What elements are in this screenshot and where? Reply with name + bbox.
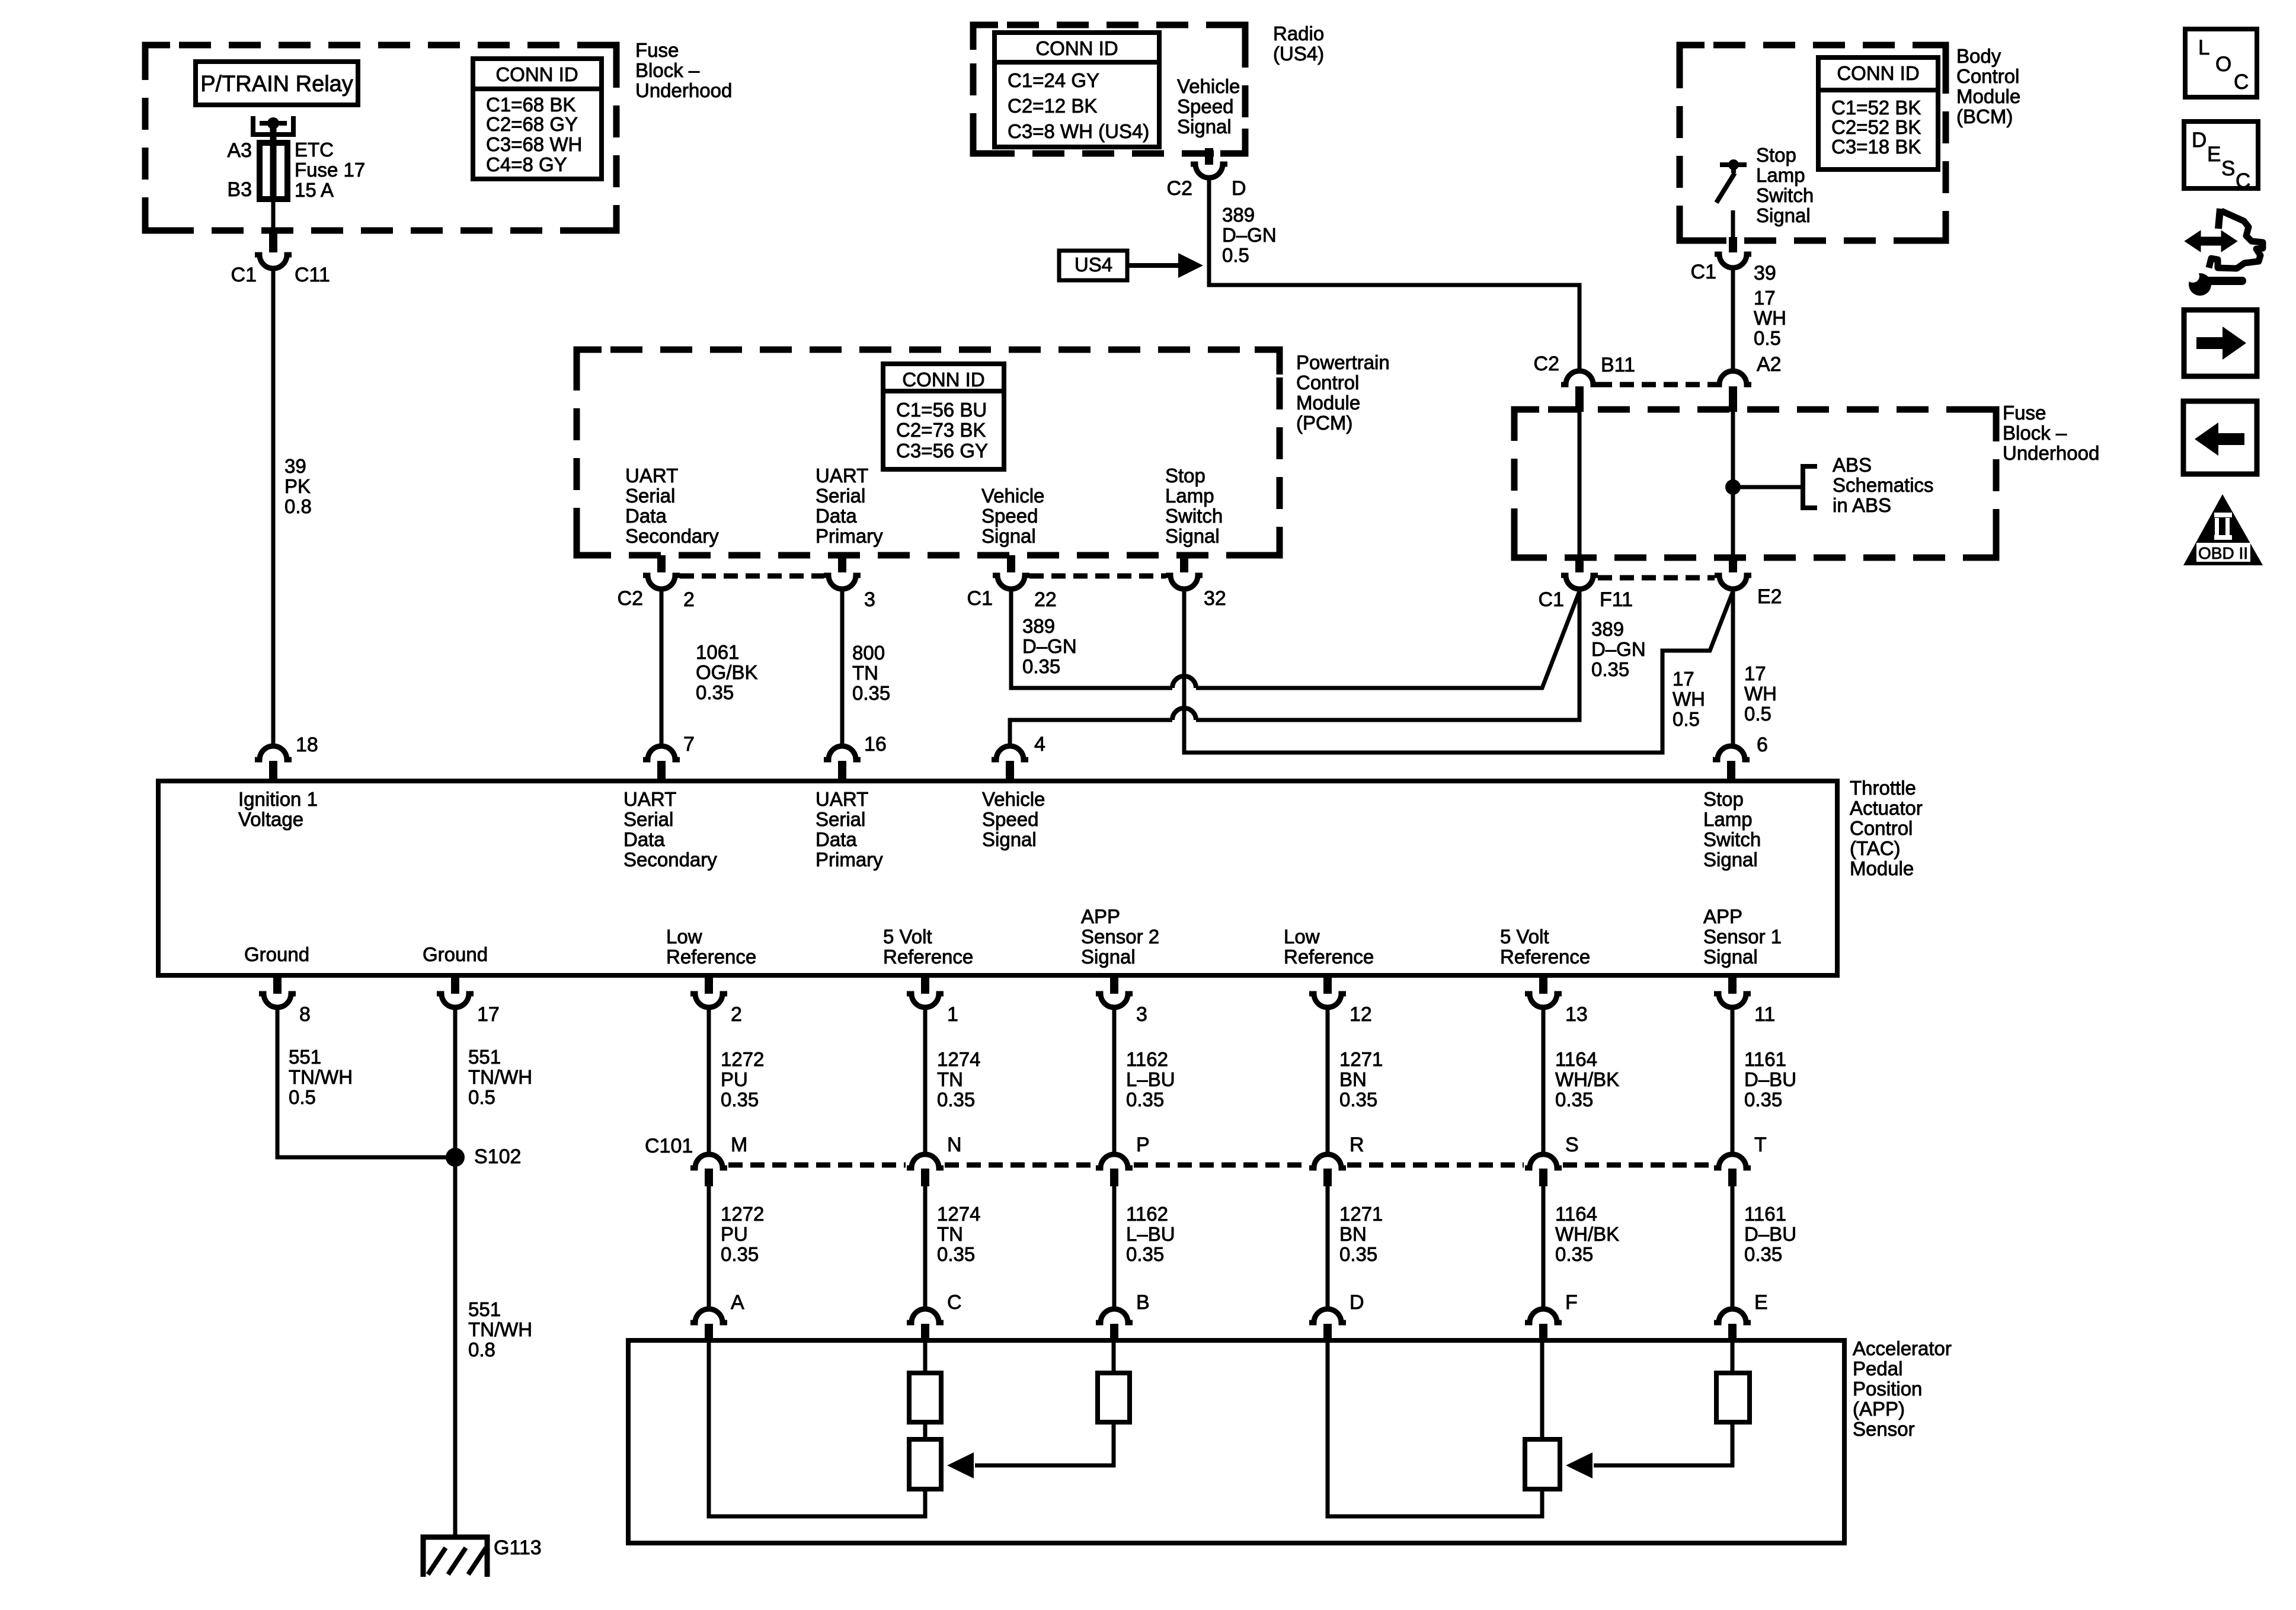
svg-text:C1=56 BU: C1=56 BU [896, 399, 987, 421]
svg-text:Switch: Switch [1165, 505, 1223, 527]
TAC pin 3 connector [1096, 977, 1133, 1007]
relay K (P/TRAIN relay contact bracket) [253, 116, 293, 135]
svg-text:TN/WH: TN/WH [468, 1066, 532, 1088]
svg-text:Powertrain: Powertrain [1296, 351, 1390, 373]
svg-text:C: C [2236, 169, 2250, 193]
svg-text:Signal: Signal [1703, 849, 1758, 870]
svg-text:Sensor: Sensor [1853, 1418, 1915, 1440]
svg-text:P: P [1136, 1134, 1150, 1156]
svg-text:C: C [947, 1291, 962, 1314]
svg-text:0.35: 0.35 [721, 1089, 759, 1110]
svg-text:Block –: Block – [635, 59, 700, 81]
label 551 TN/WH 0.5 (pin8) [289, 1046, 353, 1108]
svg-text:C2=73 BK: C2=73 BK [896, 419, 986, 441]
svg-text:Signal: Signal [982, 828, 1037, 850]
label C2 (B11 conn) [1534, 353, 1559, 375]
svg-text:Voltage: Voltage [238, 808, 303, 830]
label 1162/L–BU/0.35 (lower B) [1126, 1203, 1175, 1265]
label 1164/WH/BK/0.35 (lower F) [1555, 1203, 1619, 1265]
svg-text:Stop: Stop [1703, 788, 1744, 810]
label C101 [645, 1135, 693, 1157]
label Ground 2 [423, 943, 488, 965]
label C1 (F11 conn) [1539, 588, 1564, 611]
svg-text:3: 3 [1136, 1003, 1147, 1026]
label APP Sensor 1 Signal [1703, 905, 1782, 968]
resistor APP sensor2 series [909, 1373, 941, 1422]
label 3 (PCM pin) [864, 588, 875, 611]
wire TAC to C101 S [1542, 1007, 1546, 1154]
label G113 [494, 1537, 542, 1559]
TAC pin 16 connector [824, 746, 861, 782]
label C1 (PCM conn) [967, 587, 993, 610]
svg-text:(TAC): (TAC) [1850, 837, 1901, 859]
svg-text:1162: 1162 [1126, 1203, 1168, 1225]
svg-text:1164: 1164 [1555, 1048, 1597, 1070]
svg-text:0.35: 0.35 [1591, 658, 1629, 680]
label 1161/D–BU/0.35 (lower E) [1744, 1203, 1796, 1265]
wire TAC pin 8 to S102 [277, 1007, 455, 1157]
svg-text:Ground: Ground [244, 943, 309, 965]
TAC pin 18 connector [255, 746, 292, 782]
fuse F17 ETC 15A [260, 143, 287, 199]
wire radio VSS to fuse block B11 [1209, 178, 1579, 371]
PCM dashed box [577, 350, 1280, 555]
label C2 (radio) [1167, 177, 1192, 200]
svg-text:E: E [1754, 1291, 1768, 1314]
label 1271/BN/0.35 (upper R) [1339, 1048, 1383, 1110]
svg-text:C2: C2 [1534, 353, 1559, 375]
svg-text:5 Volt: 5 Volt [1500, 926, 1549, 948]
svg-text:1061: 1061 [696, 641, 739, 663]
svg-text:0.5: 0.5 [468, 1086, 495, 1108]
svg-text:Lamp: Lamp [1703, 808, 1753, 830]
svg-text:Stop: Stop [1165, 465, 1205, 486]
connector APP B [1096, 1309, 1133, 1341]
label 39 PK 0.8 [284, 455, 312, 517]
wire APP F internal [1540, 1340, 1544, 1442]
svg-text:Speed: Speed [1177, 95, 1233, 117]
label 1272/PU/0.35 (upper M) [721, 1048, 764, 1110]
label: Fuse Block - Underhood (left) [635, 39, 732, 101]
label 389 D-GN 0.35 (f11) [1591, 618, 1646, 680]
svg-text:11: 11 [1754, 1003, 1775, 1026]
TAC pin 12 connector [1309, 977, 1346, 1007]
connector B11 dome [1561, 371, 1598, 412]
svg-text:Data: Data [816, 828, 857, 850]
svg-text:WH: WH [1754, 307, 1786, 329]
fuse block underhood (right) dashed box [1514, 409, 1996, 558]
wire to ABS bracket [1733, 485, 1803, 489]
svg-text:C1: C1 [231, 264, 257, 286]
label 8 (TAC pin) [299, 1003, 311, 1026]
label E2 [1757, 585, 1782, 608]
svg-text:Vehicle: Vehicle [981, 485, 1044, 507]
icon box LOC [2185, 29, 2257, 97]
svg-text:in ABS: in ABS [1833, 494, 1891, 516]
label Stop Lamp Switch Signal (TAC) [1703, 788, 1761, 870]
svg-text:2: 2 [683, 588, 695, 611]
svg-text:C2: C2 [1167, 177, 1192, 200]
svg-text:Module: Module [1850, 857, 1914, 879]
wire PCM 32 stop lamp to E2 [1184, 589, 1733, 753]
label 16 [864, 733, 887, 756]
stop lamp switch symbol [1716, 159, 1747, 203]
svg-text:PK: PK [284, 475, 311, 497]
label 17 WH 0.5 (right) [1744, 662, 1777, 725]
svg-text:WH: WH [1673, 688, 1705, 710]
connector E2 stub [1729, 555, 1737, 572]
label 1164/WH/BK/0.35 (upper S) [1555, 1048, 1619, 1110]
svg-text:0.35: 0.35 [937, 1089, 975, 1110]
svg-text:1162: 1162 [1126, 1048, 1168, 1070]
svg-text:0.35: 0.35 [1744, 1243, 1782, 1265]
connector APP C [907, 1309, 944, 1341]
svg-text:Module: Module [1956, 85, 2020, 107]
svg-text:TN: TN [937, 1068, 963, 1090]
svg-text:Data: Data [816, 505, 857, 527]
svg-text:0.35: 0.35 [1339, 1089, 1377, 1110]
label A (APP pin) [731, 1291, 744, 1314]
svg-text:WH: WH [1744, 683, 1777, 705]
svg-text:(APP): (APP) [1853, 1398, 1905, 1420]
wiper box APP sensor1 [1525, 1439, 1560, 1489]
label 1162/L–BU/0.35 (upper P) [1126, 1048, 1175, 1110]
connector A2 dome [1715, 371, 1751, 412]
label Low Reference 2 [1284, 926, 1374, 968]
svg-text:Lamp: Lamp [1165, 485, 1214, 507]
label 5 Volt Reference 2 [1500, 926, 1590, 968]
svg-text:Signal: Signal [1081, 946, 1136, 968]
connector APP D [1309, 1309, 1346, 1341]
svg-text:1161: 1161 [1744, 1203, 1786, 1225]
svg-text:Signal: Signal [1177, 116, 1232, 137]
svg-text:0.8: 0.8 [468, 1339, 495, 1361]
svg-text:17: 17 [1744, 662, 1766, 684]
wire TAC pin 17 to G113 [453, 1007, 458, 1535]
label 6 [1757, 734, 1768, 756]
svg-text:M: M [731, 1134, 747, 1156]
TAC pin 17 connector [437, 977, 474, 1007]
svg-text:17: 17 [1754, 287, 1776, 309]
PCM pin 22 connector [993, 555, 1029, 589]
wire TAC to C101 R [1326, 1007, 1330, 1154]
svg-text:15 A: 15 A [295, 179, 334, 201]
svg-text:D–BU: D–BU [1744, 1068, 1796, 1090]
svg-text:Switch: Switch [1703, 828, 1761, 850]
svg-text:C2=52 BK: C2=52 BK [1831, 116, 1921, 138]
svg-text:Fuse 17: Fuse 17 [295, 159, 365, 181]
wire C101 to APP C [923, 1186, 928, 1309]
svg-text:E: E [2207, 143, 2221, 166]
svg-text:1161: 1161 [1744, 1048, 1786, 1070]
label 22 (PCM pin) [1034, 588, 1057, 611]
svg-text:0.5: 0.5 [1744, 703, 1771, 725]
svg-text:D: D [2192, 129, 2207, 152]
svg-text:C3=8 WH (US4): C3=8 WH (US4) [1008, 120, 1149, 142]
svg-text:0.35: 0.35 [1744, 1089, 1782, 1110]
label 1061 OG/BK 0.35 [696, 641, 758, 703]
connector C101 R [1309, 1154, 1346, 1186]
svg-text:13: 13 [1565, 1003, 1588, 1026]
svg-text:C1: C1 [967, 587, 993, 610]
svg-text:Switch: Switch [1756, 184, 1814, 206]
ground G113 symbol [423, 1537, 487, 1577]
svg-text:BN: BN [1339, 1223, 1367, 1245]
svg-text:C1=52 BK: C1=52 BK [1831, 97, 1921, 119]
svg-text:0.35: 0.35 [852, 682, 890, 704]
connector C101 M [690, 1154, 727, 1186]
svg-text:Vehicle: Vehicle [982, 788, 1045, 810]
label E (APP pin) [1754, 1291, 1768, 1314]
wire switch to BCM connector [1731, 210, 1735, 238]
wiper box APP sensor2 [909, 1439, 941, 1489]
CONN ID table (radio) [994, 33, 1159, 147]
label UART Serial Data Secondary (TAC) [623, 788, 717, 870]
connector C1/C11 [255, 255, 292, 268]
label 389 D-GN 0.5 [1222, 204, 1277, 266]
connector C1/C11 stub [269, 232, 277, 252]
wire TAC to C101 P [1112, 1007, 1117, 1154]
label APP Sensor 2 Signal [1081, 905, 1159, 968]
svg-text:R: R [1350, 1134, 1364, 1156]
svg-text:0.5: 0.5 [1754, 327, 1781, 349]
svg-text:0.5: 0.5 [1222, 244, 1249, 266]
connector dash line pins 22-32 [1029, 574, 1166, 579]
connector C101 P [1096, 1154, 1133, 1186]
connector APP A [690, 1309, 727, 1341]
svg-text:Throttle: Throttle [1850, 777, 1916, 799]
label 1272/PU/0.35 (lower A) [721, 1203, 764, 1265]
svg-text:N: N [947, 1134, 962, 1156]
label 12 (TAC pin) [1350, 1003, 1372, 1026]
resistor APP sensor1 signal [1716, 1373, 1750, 1422]
CONN ID table (BCM) [1818, 57, 1938, 169]
label Vehicle Speed Signal (TAC) [982, 788, 1045, 850]
svg-text:WH/BK: WH/BK [1555, 1223, 1619, 1245]
wire APP C internal upper [923, 1340, 928, 1375]
icon DTC wrench-arrow [2186, 209, 2263, 296]
BCM connector C1/39 stub [1729, 237, 1737, 252]
TAC pin 2 connector [690, 977, 727, 1007]
wire C101 to APP E [1731, 1186, 1735, 1309]
svg-text:CONN ID: CONN ID [1035, 37, 1118, 59]
wire 39 PK 0.8 (ignition 1 voltage) [271, 268, 276, 746]
svg-text:Serial: Serial [625, 485, 675, 507]
label Vehicle Speed Signal (radio) [1177, 75, 1240, 137]
connector APP F [1525, 1309, 1562, 1341]
label Body Control Module (BCM) [1956, 45, 2020, 127]
svg-text:0.35: 0.35 [1555, 1089, 1593, 1110]
PCM pin 2 connector [643, 555, 680, 589]
svg-text:Control: Control [1850, 817, 1913, 839]
CONN ID table (fuse block underhood) [473, 59, 602, 179]
svg-text:C1: C1 [1691, 261, 1716, 283]
svg-text:UART: UART [623, 788, 676, 810]
connector dash line B11-A2 [1598, 382, 1715, 388]
svg-text:Ground: Ground [423, 943, 488, 965]
label 389 D-GN 0.35 (pcm22) [1022, 615, 1077, 677]
svg-text:C1=68 BK: C1=68 BK [486, 94, 575, 116]
label F (APP pin) [1565, 1291, 1578, 1314]
TAC pin 6 connector [1713, 746, 1750, 782]
label 17 WH 0.5 (left) [1673, 668, 1705, 730]
svg-text:C1=24 GY: C1=24 GY [1008, 69, 1099, 91]
svg-text:CONN ID: CONN ID [902, 369, 984, 391]
label S (C101 pin) [1565, 1134, 1579, 1156]
svg-text:Underhood: Underhood [635, 79, 732, 101]
svg-text:S102: S102 [474, 1145, 521, 1168]
label R (C101 pin) [1350, 1134, 1364, 1156]
svg-text:Serial: Serial [623, 808, 673, 830]
label UART Serial Data Primary (TAC) [816, 788, 883, 870]
svg-text:Signal: Signal [1703, 946, 1758, 968]
svg-text:5 Volt: 5 Volt [883, 926, 932, 948]
label ETC Fuse 17 15 A [295, 139, 365, 201]
svg-text:S: S [2221, 157, 2235, 180]
svg-text:6: 6 [1757, 734, 1768, 756]
svg-text:389: 389 [1022, 615, 1055, 637]
connector E2 [1715, 575, 1751, 589]
svg-text:0.35: 0.35 [1555, 1243, 1593, 1265]
fuse block underhood (left) dashed box [145, 45, 616, 231]
svg-text:D: D [1232, 177, 1246, 200]
BCM dashed box [1680, 45, 1946, 241]
label S102 [474, 1145, 521, 1168]
radio dashed box [973, 25, 1245, 153]
TAC pin 8 connector [259, 977, 296, 1007]
svg-text:D: D [1350, 1291, 1364, 1314]
svg-text:Low: Low [1284, 926, 1320, 948]
svg-text:B: B [1136, 1291, 1150, 1314]
svg-text:0.35: 0.35 [1126, 1243, 1164, 1265]
svg-text:Signal: Signal [981, 525, 1036, 547]
svg-text:Low: Low [666, 926, 702, 948]
svg-text:4: 4 [1034, 733, 1045, 756]
svg-text:O: O [2215, 53, 2231, 76]
svg-text:551: 551 [289, 1046, 321, 1068]
svg-text:TN: TN [937, 1223, 963, 1245]
svg-text:Fuse: Fuse [635, 39, 679, 61]
svg-text:D–GN: D–GN [1022, 635, 1077, 657]
connector C101 T [1714, 1154, 1751, 1186]
label 551 TN/WH 0.5 (pin17) [468, 1046, 532, 1108]
svg-text:CONN ID: CONN ID [495, 63, 578, 85]
radio connector C2/D [1191, 164, 1227, 178]
svg-text:WH/BK: WH/BK [1555, 1068, 1619, 1090]
svg-text:Reference: Reference [883, 946, 973, 968]
arrow into wiper (sensor2) [947, 1452, 974, 1478]
TAC module box [158, 781, 1837, 975]
wire BCM to fuse block A2 [1731, 268, 1735, 371]
svg-text:B3: B3 [227, 178, 252, 201]
svg-text:32: 32 [1204, 587, 1226, 610]
svg-text:APP: APP [1081, 905, 1120, 927]
BCM connector C1/39 [1715, 254, 1751, 268]
svg-text:Primary: Primary [816, 849, 883, 870]
svg-text:1: 1 [947, 1003, 958, 1026]
svg-text:1271: 1271 [1339, 1203, 1383, 1225]
svg-text:Position: Position [1853, 1378, 1922, 1400]
svg-text:Body: Body [1956, 45, 2001, 67]
wire relay to fuse [270, 123, 277, 145]
label D (radio pin) [1232, 177, 1246, 200]
svg-text:Sensor 2: Sensor 2 [1081, 926, 1159, 948]
label 17 WH 0.5 (BCM wire) [1754, 287, 1786, 349]
svg-text:L–BU: L–BU [1126, 1223, 1175, 1245]
svg-text:Accelerator: Accelerator [1853, 1337, 1952, 1359]
label B11 [1601, 354, 1635, 376]
svg-text:389: 389 [1222, 204, 1255, 226]
icon OBD II triangle [2183, 494, 2263, 565]
svg-text:F: F [1565, 1291, 1578, 1314]
icon box arrow left [2183, 401, 2257, 474]
label Accelerator Pedal Position (APP) Sensor [1853, 1337, 1952, 1440]
svg-text:Underhood: Underhood [2003, 442, 2099, 464]
TAC pin 11 connector [1714, 977, 1751, 1007]
svg-text:PU: PU [721, 1068, 748, 1090]
svg-text:ABS: ABS [1833, 454, 1872, 476]
wire 1061 OG/BK (UART secondary) [660, 589, 664, 746]
svg-text:G113: G113 [494, 1537, 542, 1559]
label Radio (US4) [1273, 23, 1324, 65]
label Throttle Actuator Control (TAC) Module [1850, 777, 1923, 879]
wire inside fuse block B11-F11 [1578, 409, 1582, 557]
label 18 [296, 734, 318, 756]
svg-text:1271: 1271 [1339, 1048, 1383, 1070]
label 11 (TAC pin) [1754, 1003, 1775, 1026]
svg-text:UART: UART [816, 788, 868, 810]
svg-text:D–BU: D–BU [1744, 1223, 1796, 1245]
icon box DESC [2184, 121, 2258, 193]
svg-text:UART: UART [625, 465, 678, 486]
label N (C101 pin) [947, 1134, 962, 1156]
wire C101 to APP A [707, 1186, 711, 1309]
svg-text:Module: Module [1296, 392, 1360, 414]
arrow into wiper (sensor1) [1566, 1452, 1593, 1478]
wire C101 to APP F [1542, 1186, 1546, 1309]
wire TAC to C101 M [707, 1007, 711, 1154]
label 551 TN/WH 0.8 [468, 1298, 532, 1361]
svg-text:Signal: Signal [1756, 204, 1811, 226]
connector dash line pins 2-3 [680, 574, 824, 579]
svg-text:BN: BN [1339, 1068, 1367, 1090]
svg-text:OG/BK: OG/BK [696, 661, 758, 683]
wire APP A internal [709, 1340, 925, 1516]
svg-text:Reference: Reference [666, 946, 756, 968]
wire APP E internal upper [1731, 1340, 1735, 1375]
svg-text:E2: E2 [1757, 585, 1782, 608]
label T (C101 pin) [1754, 1134, 1767, 1156]
svg-text:Block –: Block – [2003, 422, 2067, 444]
svg-text:Speed: Speed [982, 808, 1038, 830]
svg-text:22: 22 [1034, 588, 1057, 611]
svg-text:S: S [1565, 1134, 1579, 1156]
label 1 (TAC pin) [947, 1003, 958, 1026]
PCM pin 32 connector [1166, 555, 1203, 589]
svg-text:Actuator: Actuator [1850, 797, 1923, 819]
label 1271/BN/0.35 (lower D) [1339, 1203, 1383, 1265]
label 39 (BCM pin) [1754, 262, 1776, 284]
TAC pin 1 connector [907, 977, 944, 1007]
svg-text:0.35: 0.35 [1339, 1243, 1377, 1265]
svg-text:C3=68 WH: C3=68 WH [486, 133, 582, 155]
svg-text:39: 39 [284, 455, 306, 477]
connector dash line F11-E2 [1598, 575, 1715, 581]
svg-text:B11: B11 [1601, 354, 1635, 376]
splice S102 [446, 1148, 465, 1167]
svg-text:TN/WH: TN/WH [468, 1318, 532, 1340]
label 1274/TN/0.35 (lower C) [937, 1203, 980, 1265]
